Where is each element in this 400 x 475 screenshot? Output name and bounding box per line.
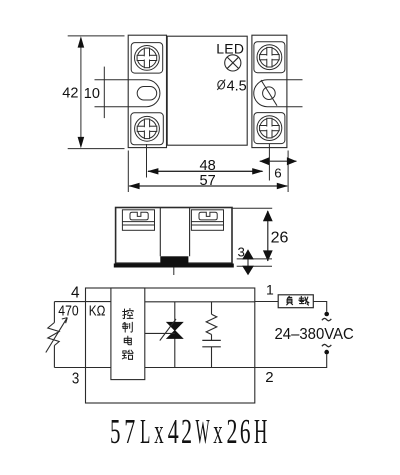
screw terminal top-left bbox=[131, 43, 163, 74]
AC terminal dot top bbox=[324, 312, 329, 317]
screw terminal top-right bbox=[254, 42, 285, 73]
dimension 42 extension lines bbox=[68, 36, 125, 149]
side view center channel bbox=[160, 208, 189, 256]
svg-text:24–380VAC: 24–380VAC bbox=[275, 326, 354, 343]
dimension 42 arrowheads bbox=[78, 36, 85, 148]
snubber resistor zigzag bbox=[206, 314, 217, 334]
dimension 10 line bbox=[103, 67, 105, 119]
dimension 3 tick lines bbox=[237, 259, 272, 266]
left mounting slot bbox=[95, 80, 160, 107]
tilde bottom bbox=[322, 344, 331, 346]
schematic: SSR outline box bbox=[86, 288, 255, 403]
wire: output rail inside box top bbox=[145, 301, 255, 303]
hole diameter label 4.5 bbox=[217, 80, 225, 90]
wire to load bbox=[255, 301, 279, 303]
svg-text:6: 6 bbox=[274, 166, 281, 181]
CJK char fu bbox=[287, 296, 293, 304]
svg-text:10: 10 bbox=[84, 86, 100, 102]
overall size text 57Lx42Wx26H bbox=[110, 412, 267, 452]
screw terminal bottom-right bbox=[254, 113, 285, 144]
svg-text:57: 57 bbox=[200, 173, 216, 189]
relay top view: left terminal strip bbox=[128, 35, 166, 147]
dimension 26 arrowheads bbox=[263, 210, 273, 261]
right mounting slot bbox=[254, 80, 303, 107]
triac gate wire bbox=[145, 332, 175, 334]
svg-text:W: W bbox=[196, 412, 211, 451]
triac diagonal stroke bbox=[160, 319, 176, 341]
svg-text:H: H bbox=[254, 413, 267, 452]
dimension 26 extension line top bbox=[232, 207, 272, 209]
left slot inner oval bbox=[137, 87, 157, 101]
side view left terminal block bbox=[122, 210, 154, 231]
svg-text:2: 2 bbox=[227, 413, 238, 451]
dimension 42 arrow line bbox=[80, 38, 82, 147]
svg-text:KΩ: KΩ bbox=[89, 302, 106, 319]
svg-text:3: 3 bbox=[238, 244, 245, 259]
svg-text:4.5: 4.5 bbox=[227, 78, 247, 94]
svg-text:2: 2 bbox=[181, 413, 192, 451]
side view right terminal block bbox=[191, 210, 223, 231]
relay top view: right terminal strip bbox=[252, 35, 287, 147]
side view body bbox=[116, 208, 232, 264]
dimension 48 arrowheads bbox=[147, 168, 263, 174]
CJK char lu bbox=[122, 350, 133, 359]
side view center black block bbox=[160, 256, 188, 263]
dimension 57 line bbox=[129, 185, 287, 187]
svg-text:4: 4 bbox=[168, 413, 179, 451]
svg-text:x: x bbox=[154, 413, 163, 452]
CJK char zhi bbox=[122, 322, 132, 332]
CJK char dian bbox=[124, 336, 131, 345]
wire: bottom rail right bbox=[145, 367, 255, 369]
svg-text:4: 4 bbox=[71, 285, 80, 302]
dimension 57 arrowheads bbox=[128, 183, 288, 189]
load box bbox=[278, 295, 313, 308]
right slot hole d4.5 bbox=[263, 87, 276, 100]
svg-text:x: x bbox=[213, 413, 222, 452]
svg-text:5: 5 bbox=[110, 412, 120, 451]
dimension 26 arrow line bbox=[267, 211, 269, 261]
svg-text:1: 1 bbox=[266, 282, 274, 298]
svg-text:26: 26 bbox=[271, 230, 289, 247]
svg-text:L: L bbox=[140, 412, 150, 450]
svg-text:42: 42 bbox=[62, 86, 78, 102]
leader line through hole bbox=[261, 80, 277, 106]
screw terminal bottom-left bbox=[131, 113, 164, 145]
potentiometer wiper arrow bbox=[46, 318, 68, 353]
wire: input rail from pot to control box bbox=[54, 301, 111, 303]
dimension 6 line bbox=[260, 160, 297, 162]
extension lines below screws and body bbox=[128, 144, 288, 192]
side view metal base plate bbox=[114, 264, 234, 268]
wire load to AC top bbox=[313, 302, 326, 312]
dimension 3 arrows (outward) bbox=[243, 250, 253, 274]
svg-text:48: 48 bbox=[200, 158, 216, 174]
svg-text:6: 6 bbox=[240, 413, 251, 452]
LED indicator symbol bbox=[225, 55, 241, 71]
control circuit box bbox=[111, 288, 145, 380]
CJK char kong bbox=[123, 308, 134, 318]
svg-text:3: 3 bbox=[72, 370, 79, 387]
svg-text:LED: LED bbox=[216, 41, 244, 57]
potentiometer zigzag bbox=[48, 323, 59, 346]
AC terminal dot bottom bbox=[324, 350, 329, 355]
CJK char zai bbox=[299, 296, 309, 305]
svg-text:7: 7 bbox=[124, 413, 135, 451]
snubber capacitor plates bbox=[202, 340, 221, 346]
snubber branch wire bbox=[211, 302, 213, 368]
tilde top bbox=[322, 318, 331, 320]
dimension 6 arrowheads (outward) bbox=[259, 157, 296, 165]
side view center mark bbox=[173, 268, 175, 276]
relay top view: body outline bbox=[167, 36, 247, 145]
triac symbol (bowtie) bbox=[167, 322, 183, 338]
triac branch wire bbox=[174, 302, 176, 368]
wire: bottom rail left bbox=[54, 367, 111, 369]
svg-text:2: 2 bbox=[265, 369, 273, 386]
potentiometer 470K wire bbox=[53, 302, 55, 368]
dimension 48 line bbox=[148, 170, 263, 172]
svg-text:470: 470 bbox=[58, 302, 78, 319]
wire AC bottom to terminal 2 bbox=[255, 354, 327, 367]
